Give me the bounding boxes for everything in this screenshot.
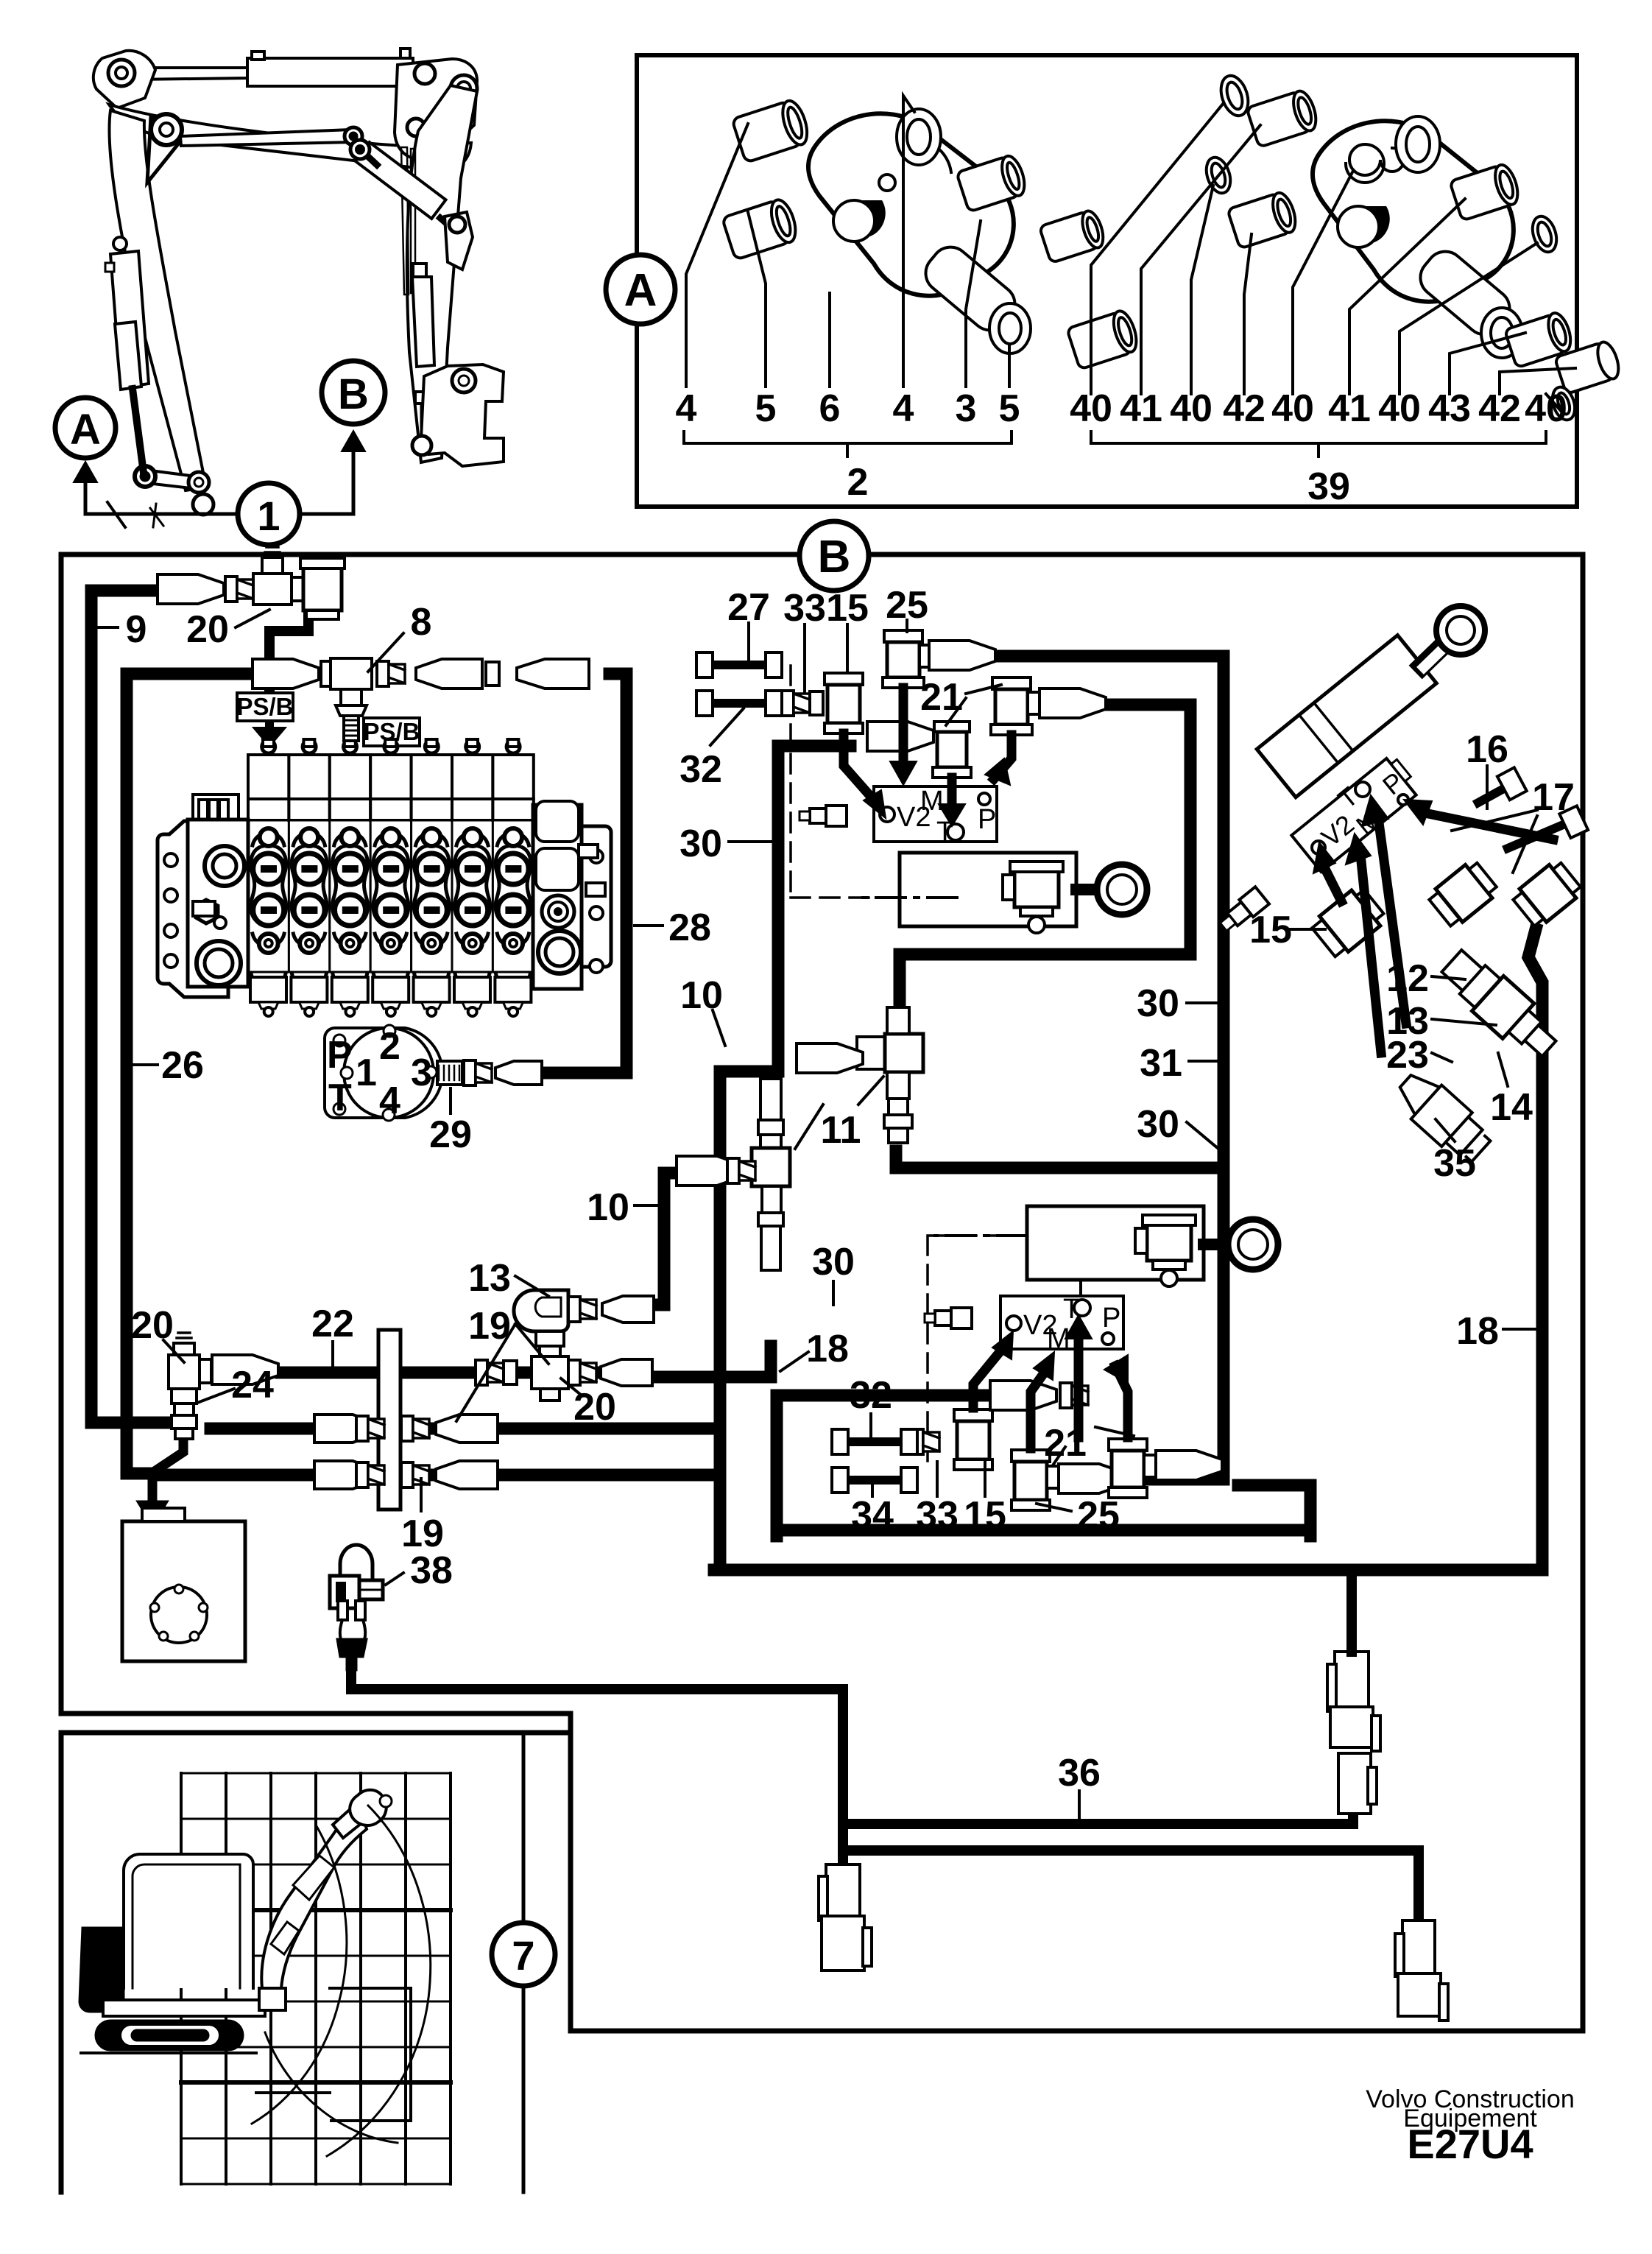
hose 30 lower left entry <box>777 1390 832 1402</box>
right cylinder eye <box>1436 606 1485 655</box>
rotor plate <box>325 1028 442 1118</box>
leader 16 <box>1486 766 1489 809</box>
svg-text:30: 30 <box>812 1241 855 1283</box>
bushing 43b <box>1504 310 1575 367</box>
leader 27 <box>747 623 750 663</box>
arrow into V2 right <box>1325 869 1341 901</box>
svg-text:9: 9 <box>126 608 147 651</box>
bushing 5a <box>722 197 800 259</box>
seal 40c <box>1528 214 1561 256</box>
leader 14 <box>1498 1053 1508 1086</box>
valve 25 upper <box>883 630 933 688</box>
wire into top connector <box>1346 1574 1357 1652</box>
boom cylinder left <box>113 237 127 250</box>
wire from plug to right <box>351 1667 843 1863</box>
leader 8 <box>368 633 403 672</box>
PS/B label box 1 <box>237 693 293 721</box>
leader lines from circle 1 <box>85 449 353 514</box>
fitting 12/13/14 diagonal chain <box>1436 943 1564 1066</box>
svg-text:24: 24 <box>231 1364 274 1406</box>
svg-text:P: P <box>327 1034 353 1077</box>
connector below vertical <box>819 1864 872 1971</box>
arrow to A <box>74 462 97 482</box>
leader 30c <box>1187 1122 1218 1149</box>
hose 19 middle row <box>211 1423 713 1435</box>
svg-text:40: 40 <box>1170 387 1212 430</box>
svg-text:33: 33 <box>916 1494 959 1537</box>
hose 30 center vertical <box>720 746 850 1570</box>
fitting 8 tee body <box>331 658 372 689</box>
boom cylinder top rod <box>133 68 247 80</box>
svg-text:B: B <box>818 532 851 582</box>
circle 7 tick lines <box>522 1733 526 2192</box>
svg-text:21: 21 <box>1044 1422 1087 1465</box>
leader 15c tick <box>984 1462 986 1496</box>
upper manifold dashed box <box>791 666 1023 898</box>
lower cylinder rod valve <box>1135 1215 1196 1286</box>
leader 15 right <box>1288 928 1325 931</box>
valve 15 right <box>1309 884 1388 960</box>
valve 21 middle left hose-end <box>867 722 933 751</box>
svg-text:34: 34 <box>851 1494 894 1537</box>
svg-text:3: 3 <box>956 387 977 430</box>
upper cylinder eye <box>1076 884 1097 895</box>
svg-text:26: 26 <box>161 1044 204 1087</box>
connector bottom right <box>1395 1920 1448 2021</box>
svg-text:P: P <box>1102 1303 1120 1334</box>
leader 23 <box>1432 1053 1452 1062</box>
leader 21b <box>1053 1427 1134 1465</box>
svg-text:4: 4 <box>676 387 697 430</box>
bolt 16 diagonal <box>1478 786 1508 803</box>
tee 20 right nuts <box>568 1360 596 1385</box>
fitting 8 nuts right <box>377 661 405 686</box>
leader 32b <box>869 1414 872 1436</box>
svg-text:25: 25 <box>886 584 928 627</box>
svg-text:18: 18 <box>1456 1310 1499 1353</box>
lower dashed box <box>928 1236 1027 1468</box>
small square on stick <box>413 264 426 277</box>
upper arrows to ports <box>844 688 1012 826</box>
hose 9 left vertical <box>91 591 168 1423</box>
leader 20a <box>163 1340 184 1362</box>
svg-text:P: P <box>978 804 996 835</box>
leader 25c <box>1037 1504 1071 1511</box>
elbow 13 and tee 20 chain <box>476 1290 654 1401</box>
leader 21a <box>946 685 1001 725</box>
svg-text:A: A <box>624 265 657 316</box>
svg-text:43: 43 <box>1428 387 1471 430</box>
dig outline <box>330 1988 411 2121</box>
boss circles top <box>897 109 941 165</box>
svg-text:15: 15 <box>1249 909 1292 951</box>
valve mid right <box>1427 859 1500 930</box>
seal ring 40b <box>1202 155 1235 197</box>
grid <box>181 1773 451 2184</box>
valve far right <box>1511 859 1584 930</box>
fitting 8 nuts left <box>321 661 349 686</box>
svg-text:M: M <box>920 786 944 817</box>
spring coil 43 <box>1346 144 1404 183</box>
svg-text:2: 2 <box>847 461 869 504</box>
hose 22 horizontal <box>281 1367 645 1379</box>
label 29 <box>449 1088 452 1113</box>
svg-text:40: 40 <box>1070 387 1112 430</box>
svg-text:10: 10 <box>587 1186 629 1229</box>
fitting 20 elbow block <box>303 566 342 610</box>
svg-text:B: B <box>338 370 369 418</box>
svg-text:5: 5 <box>999 387 1020 430</box>
bulkhead plate 19 <box>378 1330 400 1510</box>
leader 32a <box>710 708 744 745</box>
circle 7 <box>492 1923 555 1986</box>
svg-text:40: 40 <box>1271 387 1314 430</box>
tee 11b (left) <box>752 1079 790 1270</box>
svg-text:40: 40 <box>1525 387 1567 430</box>
svg-text:15: 15 <box>964 1494 1006 1537</box>
box 7 partial frame <box>61 1733 571 2192</box>
svg-text:11: 11 <box>821 1109 861 1152</box>
seal ring 40a <box>1216 72 1253 119</box>
leader 13c <box>1432 1019 1496 1025</box>
elbow 13 <box>514 1290 568 1331</box>
tee 24 right branch <box>200 1359 211 1383</box>
leader 36 <box>1078 1791 1081 1819</box>
bushing 41a <box>1246 88 1320 147</box>
elbow 13 bottom nut <box>536 1331 564 1346</box>
arrow 17a into P <box>1428 814 1553 839</box>
svg-text:33: 33 <box>783 587 826 630</box>
svg-text:E27U4: E27U4 <box>1407 2121 1533 2167</box>
arm lower right <box>918 239 1023 338</box>
svg-text:20: 20 <box>186 608 229 651</box>
engine hood black <box>80 1928 124 2012</box>
leader 15a <box>846 624 849 672</box>
svg-text:12: 12 <box>1386 957 1429 1000</box>
excavator circle A <box>55 398 116 458</box>
svg-text:27: 27 <box>727 586 770 629</box>
leader 38 <box>386 1573 403 1585</box>
wire 36 upper <box>843 1815 1353 1824</box>
upper cylinder rod valve <box>1003 862 1063 933</box>
hose 19 bottom row <box>155 1469 713 1482</box>
lower stick cylinder <box>412 277 434 367</box>
circle B (main box) <box>799 521 869 591</box>
svg-text:15: 15 <box>826 587 869 630</box>
fitting 24 nuts below <box>172 1389 197 1404</box>
leader 33 <box>803 624 806 692</box>
tank feed arrow from fitting 24 <box>152 1438 183 1501</box>
svg-text:8: 8 <box>411 601 432 644</box>
fitting 8 hose-end right <box>416 659 482 688</box>
bushing 3 <box>1039 208 1107 263</box>
svg-text:25: 25 <box>1077 1494 1120 1537</box>
svg-text:6: 6 <box>819 387 841 430</box>
bushing 4b <box>956 153 1028 212</box>
wire 36 lower <box>843 1850 1419 1920</box>
link body 6 <box>808 113 1014 295</box>
lower manifold relief valve <box>925 1308 972 1328</box>
arm lower right <box>1413 244 1517 342</box>
19 fitting pairs row 2 <box>314 1461 498 1489</box>
svg-text:23: 23 <box>1386 1034 1429 1077</box>
tick on leader <box>107 502 125 527</box>
arrow to B <box>342 431 365 451</box>
leader 34 <box>871 1482 874 1496</box>
svg-text:16: 16 <box>1466 728 1508 771</box>
leader 10b <box>635 1204 659 1207</box>
hose lower right riser <box>1238 1485 1310 1536</box>
leader lines cluster 2 <box>686 96 1009 387</box>
hose 18 bottom run to right <box>714 929 1542 1570</box>
fitting 33 lower <box>911 1429 939 1454</box>
bolts 27 <box>696 652 782 716</box>
valve 21 lower <box>1109 1439 1157 1498</box>
svg-text:28: 28 <box>668 906 711 949</box>
lower cylinder eye <box>1204 1239 1224 1250</box>
leader 35 <box>1436 1119 1455 1141</box>
svg-text:41: 41 <box>1120 387 1162 430</box>
boom pivot boss top-left <box>93 51 155 108</box>
leader 20 top <box>236 610 269 627</box>
leader 33b tick <box>936 1462 939 1496</box>
labels cluster 39 <box>1070 387 1567 430</box>
excavator circle B <box>322 361 385 424</box>
svg-text:10: 10 <box>680 974 723 1017</box>
leader lines cluster 39 <box>1091 103 1575 412</box>
svg-text:20: 20 <box>573 1386 616 1429</box>
body base <box>103 2000 265 2016</box>
svg-text:36: 36 <box>1058 1752 1101 1795</box>
valve 21 upper right <box>991 677 1041 735</box>
valve 21 upper middle <box>933 722 971 778</box>
swing arcs <box>327 1806 431 2156</box>
svg-text:30: 30 <box>679 823 722 865</box>
svg-text:39: 39 <box>1307 465 1350 508</box>
svg-text:20: 20 <box>131 1304 174 1347</box>
leader 25a <box>906 620 908 632</box>
svg-text:32: 32 <box>850 1374 892 1417</box>
bushing 41b <box>1450 162 1522 221</box>
hose 26 left vertical <box>127 674 253 1473</box>
svg-text:1: 1 <box>257 493 280 539</box>
tee 24 body <box>169 1355 200 1389</box>
svg-text:A: A <box>70 406 101 454</box>
leader 9 <box>91 626 118 629</box>
right cylinder rod <box>1422 644 1445 666</box>
excavator circle 1 <box>238 483 300 545</box>
svg-text:40: 40 <box>1378 387 1421 430</box>
svg-text:1: 1 <box>356 1052 377 1094</box>
leader 30b <box>1187 1001 1218 1004</box>
valve 25 lower <box>1012 1450 1060 1510</box>
plug 38 black <box>337 1639 367 1670</box>
svg-text:5: 5 <box>755 387 777 430</box>
leader 11 <box>795 1077 883 1149</box>
elbow 13 right nuts <box>568 1297 596 1322</box>
lower arrows to ports <box>973 1315 1128 1448</box>
upper manifold relief valve <box>799 806 847 826</box>
upper manifold block <box>874 786 997 842</box>
lower chain hose-end on 1895 line <box>990 1381 1056 1410</box>
leader 20b <box>561 1378 582 1395</box>
stick cylinder diagonal <box>355 142 445 219</box>
svg-text:32: 32 <box>679 748 722 791</box>
parts box frame <box>637 55 1577 507</box>
19 fitting pairs row 1 <box>314 1415 498 1443</box>
boom rising into grid <box>261 1813 367 1988</box>
svg-text:30: 30 <box>1137 1103 1179 1146</box>
leader 18c <box>780 1352 808 1371</box>
boom cylinder top body <box>247 58 413 86</box>
link bar to stick top <box>180 130 352 146</box>
tank body <box>122 1521 245 1661</box>
svg-text:T: T <box>328 1077 352 1119</box>
machine silhouette <box>80 1790 431 2156</box>
bottom linkage <box>145 470 197 489</box>
svg-text:4: 4 <box>893 387 914 430</box>
part 38 sensor bulb <box>340 1545 373 1591</box>
fitting 20 nuts <box>225 577 253 602</box>
svg-text:21: 21 <box>920 676 963 719</box>
tee 11b left chain <box>677 1156 743 1186</box>
right manifold (diagonal) <box>1291 754 1422 872</box>
right cylinder (diagonal) <box>1257 635 1436 797</box>
leader 13 top <box>515 1276 548 1296</box>
svg-text:29: 29 <box>429 1113 472 1156</box>
valve block right end assembly <box>533 801 611 989</box>
connector top right pair <box>1327 1652 1380 1814</box>
tee 24 stack <box>169 1333 211 1439</box>
leader 18b <box>1503 1328 1536 1331</box>
bracket 39 <box>1091 432 1546 457</box>
svg-text:41: 41 <box>1328 387 1371 430</box>
valve block left end plate <box>158 795 248 997</box>
arrow into M <box>1360 854 1381 1053</box>
fitting 20 tee body <box>253 574 292 605</box>
labels cluster 2 <box>676 387 1020 430</box>
leader 19b <box>420 1479 423 1511</box>
arrow into T <box>1378 817 1406 1024</box>
svg-text:7: 7 <box>512 1932 534 1979</box>
upper cylinder 30 <box>900 853 1076 926</box>
link body 39 <box>1313 121 1514 301</box>
valve block sections <box>248 739 289 1016</box>
hose lower group U <box>777 1524 1310 1537</box>
bushing 4a <box>732 98 812 163</box>
svg-text:31: 31 <box>1140 1042 1182 1085</box>
hose 21 upper to tee11a <box>900 705 1190 1024</box>
tank cap <box>142 1508 185 1521</box>
boom triangle bracket <box>147 116 183 183</box>
tracks black <box>96 2021 243 2050</box>
fitting 20 hose-end <box>158 574 224 604</box>
svg-text:19: 19 <box>468 1305 511 1348</box>
fitting 8 tee bottom stub <box>341 689 361 705</box>
svg-text:38: 38 <box>410 1549 453 1592</box>
PS/B arrow <box>265 719 274 729</box>
valve 15 upper <box>825 673 863 733</box>
tee 11a (right) <box>857 1007 923 1143</box>
svg-text:18: 18 <box>806 1328 849 1370</box>
PS/B label box 2 <box>364 718 420 746</box>
bushing 42a <box>1227 190 1299 249</box>
connector 35 diagonal <box>1389 1066 1497 1169</box>
rotor circle <box>344 1028 434 1118</box>
lower cylinder <box>1027 1206 1204 1280</box>
PS/B drop line <box>269 610 308 693</box>
circle A (parts box) <box>606 255 675 324</box>
leader 24 <box>197 1389 234 1403</box>
hose lower left riser <box>777 1395 986 1536</box>
hose 22 extension to tee 11b drop <box>648 1346 771 1377</box>
stick cylinder clevis flag <box>445 212 473 270</box>
tank flange circle <box>151 1587 207 1643</box>
leader 26 <box>133 1063 158 1066</box>
tee 20 left nuts <box>476 1360 504 1385</box>
boom mid pivot <box>151 114 182 145</box>
hose 31/25 right vertical <box>995 656 1224 1479</box>
bushing 5b <box>1067 309 1141 370</box>
seal 40d <box>1549 384 1579 423</box>
boom top plate right <box>395 59 477 160</box>
fitting 8 hose-end left <box>253 659 319 688</box>
fitting 20 union to elbow <box>292 577 303 601</box>
boom descending arm <box>110 110 206 490</box>
leader 28 <box>635 924 663 927</box>
svg-text:42: 42 <box>1223 387 1266 430</box>
valve 15 lower <box>954 1409 992 1470</box>
svg-text:PS/B: PS/B <box>236 693 293 720</box>
stick vertical member <box>407 85 477 462</box>
fitting 29 chain <box>437 1061 462 1085</box>
tee 20 body <box>532 1356 568 1389</box>
cab <box>124 1854 253 1988</box>
leader 30a <box>729 840 772 843</box>
svg-text:13: 13 <box>468 1257 511 1300</box>
svg-text:4: 4 <box>379 1080 400 1122</box>
fitting 33 upper <box>782 691 810 716</box>
hose 10 zigzag <box>654 1173 676 1305</box>
leader 19 top <box>456 1324 548 1421</box>
leader 31 <box>1189 1060 1218 1063</box>
svg-text:2: 2 <box>379 1025 400 1068</box>
svg-text:17: 17 <box>1532 776 1575 819</box>
ground line <box>81 2052 256 2054</box>
leader 22 <box>331 1342 334 1368</box>
right relief valve diagonal <box>1216 887 1269 935</box>
hose tee11a bottom to 31 vertical <box>896 1151 1218 1168</box>
boom main beam <box>109 105 471 171</box>
arm fold detail <box>293 1856 334 1900</box>
svg-text:42: 42 <box>1478 387 1521 430</box>
bushing 42b <box>1555 339 1623 394</box>
leader 17 <box>1452 810 1537 873</box>
svg-text:14: 14 <box>1490 1086 1533 1129</box>
leader 30d <box>832 1281 835 1305</box>
svg-text:35: 35 <box>1433 1142 1476 1185</box>
tee 11a left hose-end <box>797 1043 863 1073</box>
svg-text:3: 3 <box>411 1052 432 1094</box>
tee 24 right hose-end <box>212 1355 278 1384</box>
B box frame <box>61 554 1583 2031</box>
tee 24 top stub <box>174 1343 194 1355</box>
part 38 wire prongs <box>338 1601 347 1620</box>
part 38 sensor plug <box>330 1576 359 1608</box>
leader 10a <box>713 1010 725 1046</box>
bolts 32/34 lower <box>832 1429 917 1493</box>
bracket 2 <box>684 432 1012 457</box>
